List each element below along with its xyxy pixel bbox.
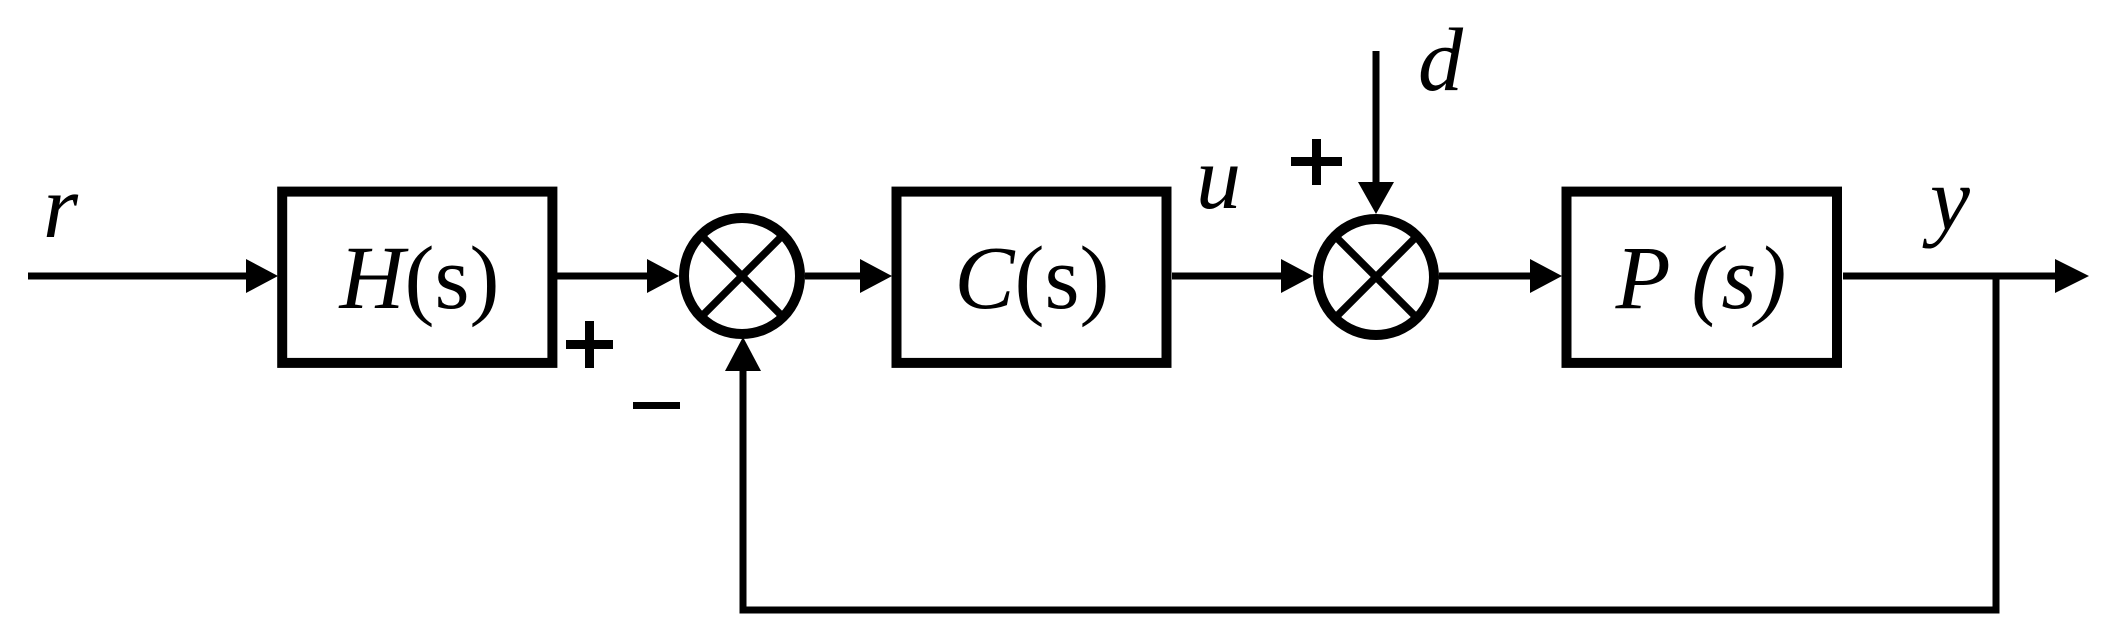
- svg-text:P (s): P (s): [1615, 229, 1787, 328]
- svg-text:H(s): H(s): [339, 229, 500, 328]
- svg-text:y: y: [1922, 150, 1970, 249]
- svg-text:r: r: [43, 158, 79, 257]
- svg-text:d: d: [1418, 11, 1464, 110]
- svg-text:u: u: [1196, 129, 1241, 228]
- svg-text:C(s): C(s): [955, 229, 1110, 328]
